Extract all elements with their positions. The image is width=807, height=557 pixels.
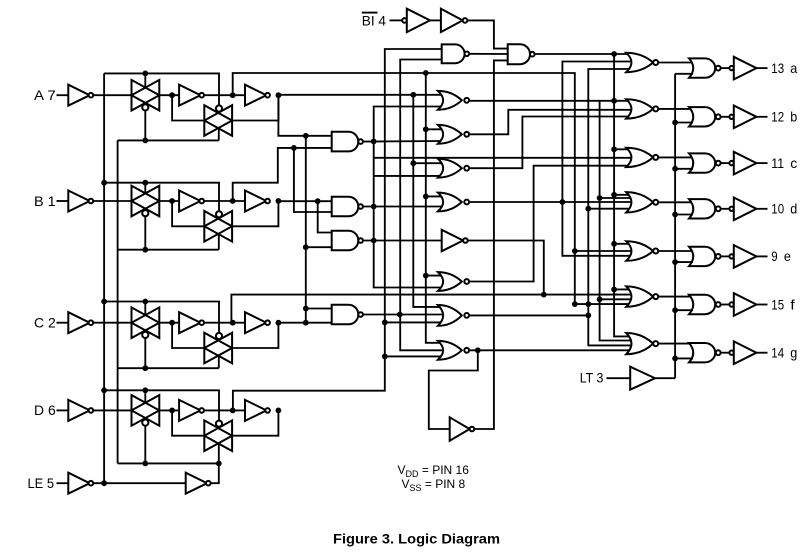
- wire output pin 11 c: [756, 162, 767, 164]
- wire NAND-A output rail to NOR-m2 bottom input: [363, 140, 442, 143]
- wire A inverter to TG: [93, 94, 131, 96]
- wire LEbar riser to D bottom rail: [211, 463, 219, 483]
- junction A output: [276, 92, 282, 98]
- TG-C1 bottom gate stub: [144, 338, 146, 368]
- TG-A1 bottom gate circle: [142, 104, 148, 110]
- wire output pin 14 g: [756, 352, 767, 354]
- junction V2 NOR-m7 stub: [382, 320, 388, 326]
- svg-text:A 7: A 7: [34, 87, 56, 103]
- junction B riser tap: [230, 198, 236, 204]
- junction V614 d1 stub: [611, 192, 617, 198]
- junction V599 NOR-d1 stub: [597, 195, 603, 201]
- nor gate NOR-m3: [438, 159, 462, 178]
- junction TG-A1 bottom: [142, 138, 148, 144]
- wire NOR-e2 output to buffer: [721, 255, 730, 257]
- svg-text:a: a: [790, 60, 797, 76]
- junction C feedback tap: [169, 320, 175, 326]
- svg-text:e: e: [784, 248, 791, 264]
- wire NOR-c2 output to buffer: [721, 162, 730, 164]
- wire B output rail to NAND-B top input: [278, 200, 331, 202]
- wire B feedback to TG-B2 input: [172, 201, 204, 226]
- wire TG-B1 output: [159, 200, 179, 202]
- svg-text:12: 12: [771, 109, 784, 125]
- junction V588 NOR-d1 stub: [585, 206, 591, 212]
- junction V675 at e2: [672, 259, 678, 265]
- junction NAND-C output at V1: [371, 238, 377, 244]
- junction V614 c1 stub: [611, 146, 617, 152]
- wire NOR-b2 output to buffer: [721, 116, 730, 118]
- junction TG-B1 bottom: [142, 247, 148, 253]
- inverter C input: [68, 312, 89, 333]
- junction D output: [276, 408, 282, 414]
- inverter A latch first: [179, 85, 200, 106]
- TG-D1 bottom gate circle: [142, 420, 148, 426]
- TG-C2 bottom gate stub: [218, 356, 220, 369]
- wire NAND-B output rail to NOR-m4 bottom input: [363, 206, 442, 208]
- wire NOR-f1 output to NOR-f2: [658, 296, 693, 298]
- wire buffer-m output riser to C rail: [468, 241, 544, 295]
- wire V614 blanking bus vertical: [614, 54, 632, 336]
- junction V306 at C output rail: [303, 320, 309, 326]
- wire NOR-c1 output to NOR-c2: [658, 156, 693, 158]
- svg-text:B 1: B 1: [34, 193, 56, 209]
- wire V675 stub to NOR-f2 bottom input: [675, 309, 693, 311]
- junction C riser tap: [230, 320, 236, 326]
- nor gate NOR-b2: [689, 107, 715, 126]
- wire TG-C1 output: [159, 322, 179, 324]
- nor gate NOR-d2: [689, 199, 715, 218]
- wire V675 LT bus vertical: [674, 74, 676, 378]
- wire V588 stub to NOR-d1 bottom input: [588, 208, 632, 210]
- TG-C2 top gate circle: [216, 333, 222, 339]
- svg-text:C 2: C 2: [34, 315, 56, 331]
- transmission gate TG-A1: [132, 80, 160, 111]
- junction V5 NOR-m5 stub: [423, 273, 429, 279]
- wire C feedback to TG-C2 input: [172, 323, 204, 348]
- TG-B1 bottom gate stub: [144, 216, 146, 249]
- TG-A1 bottom gate stub: [144, 111, 146, 141]
- svg-text:c: c: [790, 155, 797, 171]
- wire A feedback to TG-A2 input: [172, 95, 204, 120]
- junction V599 NOR-f1 stub: [597, 296, 603, 302]
- transmission gate TG-B2 (feedback): [204, 211, 232, 242]
- output buffer f (input bubble): [729, 302, 733, 306]
- wire V675 stub to NOR-c2 bottom input: [675, 168, 693, 170]
- buffer-m (middle inverter): [442, 230, 463, 251]
- junction NOR-m8 output feedback tap: [475, 347, 481, 353]
- TG-B1 bottom gate circle: [142, 210, 148, 216]
- svg-text:g: g: [790, 345, 797, 361]
- wire NAND-C output rail to buffer-m input: [363, 240, 442, 242]
- wire latch-C bottom rail (LEbar): [118, 367, 219, 369]
- nor gate NOR-m7: [438, 305, 462, 326]
- wire V574 stub to NOR-e1 input: [575, 250, 632, 252]
- TG-A1 top gate stub: [144, 73, 146, 88]
- output buffer c (input bubble): [729, 161, 733, 165]
- wire V306 vertical: [305, 136, 307, 323]
- wire A input: [57, 94, 69, 96]
- wire V562 from NOR-a1 mid input down to NOR-e1: [562, 62, 632, 256]
- wire V4 stub to NOR-m3 top input: [413, 162, 442, 164]
- wire LE bus vertical: [103, 73, 105, 483]
- wire NOR-g1 output to NOR-g2: [658, 343, 693, 345]
- wire latch-D top rail (LE): [104, 390, 219, 421]
- svg-text:Figure 3. Logic Diagram: Figure 3. Logic Diagram: [333, 530, 500, 546]
- junction TG-C1 bottom: [142, 365, 148, 371]
- junction V306 NAND-C stub: [303, 244, 309, 250]
- inverter D input: [68, 400, 89, 421]
- junction NAND-D output at V3: [397, 312, 403, 318]
- wire V675 stub to NOR-b2 bottom input: [675, 122, 693, 124]
- output buffer g (input bubble): [729, 351, 733, 355]
- wire D latch feedback loop: [233, 410, 278, 435]
- junction V5 NOR-m4 stub: [423, 194, 429, 200]
- junction B rail at V318: [315, 198, 321, 204]
- svg-text:LT 3: LT 3: [580, 369, 604, 385]
- TG-C1 bottom gate circle: [142, 332, 148, 338]
- wire D feedback to TG-D2 input: [172, 410, 204, 435]
- wire C latch feedback loop: [233, 323, 278, 348]
- svg-text:LE 5: LE 5: [28, 475, 55, 491]
- wire B latch feedback loop: [233, 201, 278, 226]
- wire V599 stub to NOR-f1 input: [600, 298, 632, 300]
- BI overline: [362, 12, 378, 14]
- inverter A input: [68, 85, 89, 106]
- wire NOR-a1 output to NOR-a2: [658, 62, 693, 64]
- TG-B1 top gate stub: [144, 183, 146, 194]
- junction V588 NOR-f1 stub: [585, 301, 591, 307]
- wire NOR-f2 output to buffer: [721, 304, 730, 306]
- junction V4 NOR-m3 stub: [410, 160, 416, 166]
- nand gate NAND-C: [332, 231, 359, 251]
- junction V574 NOR-e1 stub: [572, 248, 578, 254]
- wire V5 stub to NOR-m5 top input: [426, 275, 442, 277]
- svg-text:d: d: [790, 201, 797, 217]
- wire V675 stub to NOR-a2 bottom input: [675, 73, 693, 75]
- TG-D1 bottom gate stub: [144, 426, 146, 464]
- svg-text:11: 11: [771, 155, 784, 171]
- wire V614 stub to NOR-f1 top input: [614, 288, 632, 290]
- junction V574 end at f-bottom line: [572, 301, 578, 307]
- wire output pin 13 a: [756, 67, 767, 69]
- wire A-NAND top input rail: [278, 95, 331, 136]
- wire NOR-a2 output to buffer: [721, 67, 730, 69]
- transmission gate TG-C2 (feedback): [204, 333, 232, 364]
- TG-B2 top gate circle: [216, 211, 222, 217]
- junction V5 NOR-m2 stub: [423, 126, 429, 132]
- wire C input: [57, 322, 69, 324]
- wire BI between inverters: [430, 19, 441, 21]
- wire D to output inverter: [204, 409, 245, 411]
- wire output pin 12 b: [756, 116, 767, 118]
- transmission gate TG-D1: [132, 395, 160, 426]
- wire latch-B bottom rail (LEbar): [118, 249, 219, 251]
- nand gate NAND-B: [332, 197, 359, 217]
- wire V4 A-bus vertical: [413, 95, 442, 307]
- nor gate NOR-c1: [626, 148, 653, 167]
- TG-D1 top gate stub: [144, 390, 146, 403]
- wire LT output to V675: [655, 377, 675, 379]
- junction LE bus at B top rail: [101, 180, 107, 186]
- nor gate NOR-m4: [438, 193, 462, 212]
- inverter D latch first: [179, 400, 200, 421]
- transmission gate TG-D2 (feedback): [204, 420, 232, 451]
- wire C inverter to TG: [93, 322, 131, 324]
- wire V2 branch to NOR-m7 bottom input: [385, 321, 442, 323]
- wire NOR-e1 output to NOR-e2: [658, 250, 693, 252]
- junction D riser tap: [230, 408, 236, 414]
- junction A rail at V4: [410, 92, 416, 98]
- wire LT input: [607, 377, 631, 379]
- wire NOR-m1 output rail to NOR-b1 top input: [469, 100, 632, 102]
- nor gate NOR-m8: [438, 341, 462, 360]
- junction NAND-B output at V1: [371, 204, 377, 210]
- junction TG-D1 top: [142, 387, 148, 393]
- junction TG-D1 bottom: [142, 461, 148, 467]
- junction V675 at g2: [672, 356, 678, 362]
- wire V599 from NOR-m1 rail down to NOR-g1: [600, 101, 632, 341]
- svg-text:15: 15: [771, 296, 784, 312]
- wire D input: [57, 409, 69, 411]
- TG-D2 top gate circle: [216, 421, 222, 427]
- inverter B input: [68, 191, 89, 212]
- junction B output: [276, 198, 282, 204]
- wire NOR-b1 output to NOR-b2: [658, 108, 693, 110]
- junction V675 at f2: [672, 307, 678, 313]
- transmission gate TG-A2 (feedback): [204, 105, 232, 136]
- junction V675 at d2: [672, 212, 678, 218]
- nor gate NOR-g1: [626, 333, 653, 354]
- wire V5 Abar-bus vertical to NOR-m8 top input: [426, 73, 442, 343]
- wire NOR-d1 output to NOR-d2: [658, 201, 693, 203]
- junction LE bus bottom: [101, 480, 107, 486]
- wire latch-D bottom rail (LEbar): [118, 462, 219, 464]
- junction C output: [276, 320, 282, 326]
- nor gate NOR-m5: [438, 272, 462, 291]
- wire B to output inverter: [204, 200, 245, 202]
- junction B feedback tap: [169, 198, 175, 204]
- wire B inverter to TG: [93, 200, 131, 202]
- junction NAND2 rail at V614: [611, 51, 617, 57]
- wire NAND2 output rail to NOR-a1 top input: [535, 53, 632, 55]
- wire V599 stub to NOR-d1 input: [600, 197, 632, 199]
- wire NOR-m4 output rail to NOR-d1 input: [469, 201, 632, 203]
- wire NOR-m3 output riser to NOR-b1 bottom input: [469, 117, 632, 169]
- nand gate NAND2 (blanking): [508, 44, 530, 64]
- wire V3 from NAND1 bottom input to NOR-m8 middle input: [400, 60, 442, 351]
- transmission gate TG-C1: [132, 307, 160, 338]
- junction LE bus at D top rail: [101, 387, 107, 393]
- svg-text:13: 13: [771, 60, 784, 76]
- nor gate NOR-g2: [689, 343, 715, 362]
- nor gate NOR-m1: [438, 91, 462, 110]
- wire BI to NAND2 top input: [467, 20, 507, 48]
- inverter D latch output: [245, 400, 266, 421]
- wire V588 from NOR-a1 bottom input down to NOR-g1 input: [588, 69, 632, 345]
- junction V306 NAND-D stub: [303, 306, 309, 312]
- svg-text:9: 9: [771, 248, 778, 264]
- wire V1 branch to NOR-c1 (long rail): [374, 157, 632, 159]
- inverter LE second: [186, 473, 207, 494]
- svg-text:f: f: [790, 296, 795, 312]
- wire V306 stub to NAND-D top input: [306, 308, 332, 310]
- nor gate NOR-c2: [689, 153, 715, 172]
- wire LE input: [57, 482, 69, 484]
- wire V588 stub to NOR-f1 bottom input: [575, 303, 632, 305]
- junction C rail at buffer riser: [541, 292, 547, 298]
- wire A output rail to NOR-m1 top input: [278, 94, 442, 96]
- TG-A2 top gate circle: [216, 105, 222, 111]
- inverter B latch output: [245, 191, 266, 212]
- wire output pin 10 d: [756, 208, 767, 210]
- wire LEbar bus vertical: [117, 140, 119, 463]
- wire A to output inverter: [204, 94, 245, 96]
- junction V675 at b2: [672, 120, 678, 126]
- junction A riser tap: [230, 92, 236, 98]
- inverter BI first (input bubble): [402, 18, 407, 23]
- junction NAND-A output at V1: [371, 139, 377, 145]
- wire A latch feedback loop: [233, 95, 278, 120]
- wire NOR-m7 output rail to V588: [469, 314, 588, 316]
- junction V614 e1 stub: [611, 241, 617, 247]
- wire V675 stub to NOR-e2 bottom input: [675, 261, 693, 263]
- wire C to output inverter: [204, 322, 245, 324]
- nor gate NOR-e1: [626, 241, 653, 261]
- output buffer e (input bubble): [729, 254, 733, 258]
- output buffer a (input bubble): [729, 66, 733, 70]
- wire C riser rail to NOR-f1 input: [231, 295, 632, 323]
- output buffer d (input bubble): [729, 207, 733, 211]
- wire V675 stub to NOR-d2 bottom input: [675, 214, 693, 216]
- wire V2 branch to NOR-m8 bottom input: [385, 355, 442, 357]
- wire D riser rail to V2: [233, 49, 442, 410]
- junction D feedback tap: [169, 408, 175, 414]
- inverter C latch first: [179, 312, 200, 333]
- wire V614 stub to NOR-d1 top input: [614, 194, 632, 196]
- wire C output rail to NAND-D input: [278, 322, 331, 324]
- wire LE to second inverter: [93, 482, 186, 484]
- nor gate NOR-f1: [626, 286, 653, 306]
- wire latch-A bottom rail (LEbar): [118, 139, 219, 141]
- svg-text:14: 14: [771, 345, 784, 361]
- inverter LE input: [68, 473, 89, 494]
- junction A feedback tap: [169, 92, 175, 98]
- wire B riser rail to NAND-A bottom input: [233, 148, 332, 201]
- TG-C1 top gate stub: [144, 302, 146, 316]
- wire NAND1 output to NAND2: [469, 53, 508, 55]
- wire V318 to NAND-C top input: [318, 201, 332, 232]
- nand gate NAND1 (BI): [442, 44, 465, 63]
- wire output pin 15 f: [756, 304, 767, 306]
- wire NOR-m8 output rail to NOR-g1 input: [469, 349, 632, 351]
- junction NOR-m1 rail at V614: [611, 98, 617, 104]
- wire NOR-g2 output to buffer: [721, 352, 730, 354]
- junction NOR-m7 output at V588: [585, 313, 591, 319]
- wire feedback loop to bottom inverter: [429, 350, 478, 429]
- junction TG-A1 top: [142, 71, 148, 77]
- junction B riser at V294: [291, 145, 297, 151]
- wire V306 stub to NAND-C bottom input: [306, 246, 332, 248]
- wire V675 stub to NOR-g2 bottom input: [675, 357, 693, 359]
- junction V614 f1 stub: [611, 287, 617, 293]
- svg-text:b: b: [790, 109, 797, 125]
- wire bottom-inverter output riser to NAND2 bottom input: [474, 60, 508, 429]
- TG-B2 bottom gate stub: [218, 234, 220, 250]
- wire V1 branch to NOR-m3 bottom input: [374, 175, 442, 177]
- junction V2 NOR-m8 stub: [382, 354, 388, 360]
- wire V614 stub to NOR-c1 top input: [614, 148, 632, 150]
- nor gate NOR-a1: [626, 53, 653, 72]
- junction LE bus at C top rail: [101, 299, 107, 305]
- junction TG-C1 top: [142, 299, 148, 305]
- inverter bottom feedback: [450, 417, 470, 440]
- inverter BI second: [441, 9, 463, 32]
- junction V675 at c2: [672, 166, 678, 172]
- wire latch-C top rail (LE): [104, 302, 219, 334]
- TG-D2 bottom gate stub: [218, 443, 220, 463]
- wire B input: [57, 200, 69, 202]
- wire TG-A1 output: [159, 94, 179, 96]
- wire NOR-m5 output riser to NOR-c1 bottom input: [469, 166, 632, 282]
- svg-text:BI 4: BI 4: [362, 13, 386, 29]
- wire latch-A top rail (LE): [104, 73, 219, 106]
- wire Abar riser rail (A input node to bundle): [233, 73, 575, 304]
- wire NOR-d2 output to buffer: [721, 208, 730, 210]
- transmission gate TG-B1: [132, 186, 160, 217]
- output buffer b (input bubble): [729, 115, 733, 119]
- nand gate NAND-A: [332, 132, 359, 152]
- wire latch-B top rail (LE): [104, 183, 219, 212]
- nand gate NAND-D: [332, 305, 359, 325]
- wire NOR-m2 output riser to NOR-b1 mid input: [469, 110, 632, 135]
- nor gate NOR-m2: [438, 125, 462, 144]
- wire V614 stub to NOR-e1 top input: [614, 243, 632, 245]
- wire V5 stub to NOR-m4 top input: [426, 195, 442, 197]
- wire TG-D1 output: [159, 409, 179, 411]
- wire V1 vertical with branch to NOR-m1 bottom input: [374, 107, 442, 288]
- buffer LT: [630, 367, 655, 390]
- nor gate NOR-b1: [626, 99, 653, 118]
- nor gate NOR-d1: [626, 192, 653, 212]
- nor gate NOR-a2: [689, 58, 715, 77]
- nor gate NOR-e2: [689, 247, 715, 266]
- inverter C latch output: [245, 312, 266, 333]
- junction A-NAND rail at V306: [303, 133, 309, 139]
- wire V5 stub to NOR-m2 top input: [426, 128, 442, 130]
- nor gate NOR-f2: [689, 295, 715, 314]
- junction LEbar at D bottom rail: [216, 461, 222, 467]
- inverter B latch first: [179, 191, 200, 212]
- junction Abar rail at V5: [423, 70, 429, 76]
- inverter A latch output: [245, 85, 266, 106]
- wire BI input: [390, 19, 403, 21]
- wire output pin 9 e: [756, 255, 767, 257]
- wire D inverter to TG: [93, 409, 131, 411]
- junction NOR-m4 rail at V562: [560, 199, 566, 205]
- wire V294 to NAND-B bottom input: [294, 148, 332, 212]
- svg-text:D 6: D 6: [34, 402, 56, 418]
- svg-text:10: 10: [771, 201, 784, 217]
- junction TG-B1 top: [142, 180, 148, 186]
- TG-A2 bottom gate stub: [218, 128, 220, 140]
- wire NAND-D output rail to NOR-m7 input: [363, 314, 442, 316]
